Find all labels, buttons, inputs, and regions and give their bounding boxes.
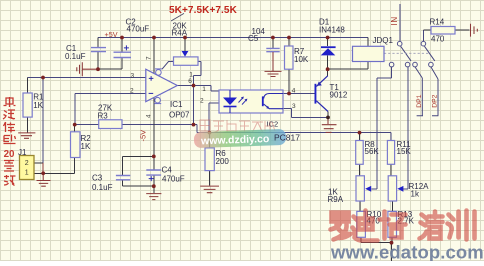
junction at (328,117.4) [326,116,330,120]
svg-text:9012: 9012 [330,90,348,99]
svg-text:DP2: DP2 [432,94,439,107]
component value labels [18,18,445,226]
svg-text:7: 7 [146,56,153,60]
J1 pin1-pin2 red link [42,163,44,173]
svg-text:10K: 10K [294,55,309,64]
wire R4A right lead to output [194,62,202,85]
capacitor C4 [146,170,161,175]
wire IC2 pin4 to T1 base [283,93,315,95]
pin R11 chain leads [391,164,392,211]
relay contact pole1 NO [405,62,410,67]
earth right of R14 [471,24,478,37]
svg-text:IC1: IC1 [170,100,183,109]
middle watermark outlined chars [200,120,275,132]
svg-text:1K: 1K [33,101,43,110]
resistor R14 [431,27,455,35]
wire +5V rail [98,37,368,39]
svg-text:www.edatop.com: www.edatop.com [330,242,484,262]
junction at (193.5,124.6) [192,123,196,127]
svg-text:4: 4 [292,88,296,95]
junction at (153.8,186.2) [152,184,156,188]
op-amp plus input mark [149,76,154,81]
pin C3 loop leads [123,156,154,186]
svg-text:0.1uF: 0.1uF [65,52,86,61]
op-amp minus input mark [149,92,154,94]
pin J1 pin2 stub [34,162,43,164]
relay contact pole1 NC [389,62,394,67]
ground under J1 [37,173,51,186]
junction at (359.5,132.6) [358,131,362,135]
junction at (327.6,37.5) [326,36,330,40]
op-amp U1 triangle [146,69,178,101]
svg-text:2: 2 [25,160,29,167]
relay contact pole2 common [421,41,426,46]
wire IN vertical [399,4,401,41]
wire J1 pin2 riser [42,78,44,163]
pin R7 leads [288,38,290,94]
wire DP1 [415,67,423,116]
diode D1 [321,46,336,48]
wire DP2 [431,67,439,116]
wire R3 to feedback node [122,125,210,133]
wire divider net y132 [210,133,392,141]
svg-text:PC817: PC817 [274,133,300,143]
junction at (185,37.5) [183,36,187,40]
potentiometer R9A body [356,176,364,201]
capacitor C5 [266,48,279,51]
wire op-amp pin3 net [28,77,146,79]
capacitor C3 [116,176,130,180]
svg-text:4: 4 [146,114,153,118]
svg-text:IN4148: IN4148 [319,26,345,35]
pin C1 leads [97,38,99,70]
svg-text:2: 2 [130,88,134,95]
resistor R11 [387,141,394,165]
svg-text:2: 2 [200,98,204,105]
op-amp pin1 offset bubble [155,97,161,103]
relay mech dashed link [384,52,430,54]
capacitor C2 [114,52,132,57]
potentiometer R12A wiper arrow [397,186,403,192]
wire feedback vertical [193,86,195,125]
pin C2 leads + wire to C1 node [98,38,122,70]
pin R14 leads [423,29,469,31]
ground under C4 [146,194,161,200]
svg-text:-5V: -5V [139,130,148,142]
left red vertical text 电流传感20毫欧 [3,97,16,186]
svg-text:OP07: OP07 [169,111,190,120]
wire R14 leads [422,30,424,41]
potentiometer R12A body [388,176,396,201]
wire IC2 pin3 to gnd node [283,109,328,118]
relay JDQ1 coil [353,46,385,61]
ground under R6 [200,186,219,193]
junction at (122,37.5) [120,36,124,40]
junction at (43.2,173.3) [41,171,45,175]
pin R6 leads [209,133,211,186]
svg-text:C5: C5 [248,34,259,43]
wire op-amp output to IC2 pin1 [177,86,219,92]
transistor Q1 base bar [315,84,317,104]
wire relay NC1 to R9A wiper [371,67,391,189]
wire relay to R12A wiper [403,67,408,189]
svg-text:5K+7.5K+7.5K: 5K+7.5K+7.5K [169,5,238,16]
pin T1 collector drop [327,112,329,118]
svg-text:R4A: R4A [172,28,188,37]
annotation pointer line [171,13,184,21]
optocoupler light arrows [239,97,247,104]
svg-text:R9A: R9A [328,195,344,204]
svg-text:1: 1 [202,86,206,93]
svg-text:R3: R3 [98,111,109,120]
wire J1 pin1 to R2 [34,158,75,174]
junction at (327.6,69.2) [326,67,330,71]
svg-text:J1: J1 [18,148,27,157]
earth left of C1 [77,62,98,76]
pin number labels [130,56,296,118]
wire R4A left lead [162,62,174,70]
pin C4 leads [153,156,155,193]
junction at (209.5,132.6) [208,131,212,135]
svg-text:DP1: DP1 [416,94,423,107]
junction at (193.5,85.5) [192,84,196,88]
resistor R3 [99,120,122,129]
optocoupler phototransistor [262,96,264,106]
pin R1 leads [27,78,29,133]
junction at (98,69.2) [96,67,100,71]
potentiometer R4A body [174,57,199,65]
svg-text:R14: R14 [430,18,445,27]
capacitor C1 [91,48,106,52]
relay contact pole2 NO [429,62,434,67]
potentiometer R9A wiper arrow [365,186,371,192]
svg-text:1k: 1k [411,190,420,199]
optocoupler IC2 box [219,90,283,113]
resistor R8 [356,141,364,165]
svg-text:IN: IN [390,16,399,25]
optocoupler LED [223,98,237,106]
junction at (289,37.5) [287,36,291,40]
svg-text:1: 1 [189,71,193,78]
pin C5 top [272,38,274,49]
svg-text:470: 470 [431,35,445,44]
svg-text:0.1uF: 0.1uF [92,183,113,192]
middle watermark gradient band [194,129,287,148]
connector J1 [20,156,35,180]
red net labels [105,16,439,141]
svg-text:200: 200 [216,157,230,166]
wire relay blades [401,46,435,61]
ground under C5 [265,52,282,77]
ground under T1 [322,117,337,132]
junction at (272.9,37.5) [271,36,275,40]
resistor R1 [23,93,32,117]
svg-text:56K: 56K [365,147,380,156]
svg-text:JDQ1: JDQ1 [373,36,394,45]
resistor R7 [285,46,294,69]
junction at (43,77.5) [41,76,45,80]
wire IC2 pin2 to R6 [209,103,219,133]
relay contact terminals [389,41,433,67]
pin R4A wiper stem [184,38,186,51]
transistor Q1 emitter/collector [316,76,328,112]
pin op-amp 7 [153,38,155,74]
relay contact pole1 common [397,41,402,46]
svg-text:6: 6 [188,78,192,85]
junction at (74.7,124.6) [73,123,77,127]
svg-text:3: 3 [131,72,135,79]
relay contact pole2 NC [413,62,418,67]
wire op-amp pin2 net [75,94,146,125]
pin D1 leads [327,38,329,70]
junction at (391.5,242.7) [390,241,394,245]
junction at (154,37.5) [152,36,156,40]
resistor R10 [357,211,366,237]
pin op-amp 4 [153,97,155,156]
resistor R2 [71,132,81,158]
svg-text:C3: C3 [92,174,103,183]
bottom-right red watermark 易迪拓培训 [331,211,475,241]
potentiometer R4A wiper arrow [182,51,189,57]
svg-text:1K: 1K [81,142,91,151]
junction at (153.8,156.4) [152,155,156,159]
svg-text:470uF: 470uF [162,174,185,183]
op-amp pin8 offset bubble [156,70,162,76]
svg-text:1: 1 [25,169,29,176]
wire D1 to coil [328,68,368,70]
svg-text:470uF: 470uF [127,25,150,34]
pin R2 top [74,125,76,132]
svg-text:C4: C4 [162,165,173,174]
resistor R6 [205,148,214,171]
pin T1 emitter riser [327,69,329,76]
svg-text:15K: 15K [397,147,412,156]
svg-text:3: 3 [292,103,296,110]
pin R8 chain leads [360,133,393,261]
svg-text:www.dzdiy.co: www.dzdiy.co [200,133,270,147]
resistor R13 [388,211,397,237]
ground under R1 [18,133,35,138]
junction at (289,93.5) [287,92,291,96]
J1 pin numbers [25,160,29,177]
pin relay coil leads [367,38,369,70]
svg-text:+5V: +5V [105,30,118,39]
svg-text:20: 20 [4,149,15,160]
